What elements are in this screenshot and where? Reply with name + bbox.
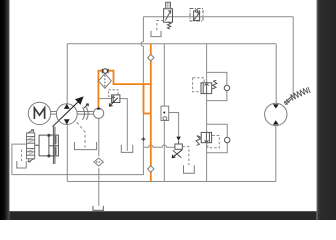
wire supply rail y=16.7 xyxy=(143,16,293,18)
hot oil relief valve (x=178.6) xyxy=(172,137,182,158)
wire charge line horizontal y=84.1 (orange) xyxy=(113,83,151,85)
electric motor M xyxy=(28,102,50,124)
wire return rail y=174.6 xyxy=(12,174,144,176)
wire branch y=112.5 to hot oil relief xyxy=(164,113,178,138)
flow arrow on x=143.4 xyxy=(142,138,146,141)
main tank xyxy=(93,206,103,211)
tank under charge relief xyxy=(121,145,133,153)
pump drain tank (wide) xyxy=(74,142,96,150)
hydraulic motor HM1 xyxy=(265,103,287,125)
charge pump P2 xyxy=(94,107,104,119)
wire pump top port xyxy=(66,44,68,104)
wire suction line charge pump to strainer xyxy=(98,119,100,157)
suction strainer xyxy=(94,158,103,166)
tank right center xyxy=(184,165,195,173)
wire charge pump outlet (orange) xyxy=(98,71,113,108)
wire pump bottom port xyxy=(66,124,68,181)
wire main loop rail y=43.8 xyxy=(67,43,276,45)
charge filter F1 xyxy=(99,74,112,89)
wire orange rung y=113.5 xyxy=(144,113,151,115)
orifice diamond lower xyxy=(148,166,154,172)
orifice diamond upper xyxy=(148,54,154,60)
lower check valve xyxy=(225,137,230,142)
left pilot valve (proportional) xyxy=(27,130,35,162)
upper cross relief valve xyxy=(193,78,217,94)
wire bottom loop rail y=181.5 xyxy=(67,181,275,183)
wire charge main vertical x=150.8 (orange) xyxy=(150,44,152,182)
pump case drain (dashed) xyxy=(77,122,85,147)
solenoid valve pilot drain (dashed) xyxy=(157,21,164,31)
wire shuttle line x=164.3 xyxy=(163,44,165,182)
shaft M to pump xyxy=(51,112,57,115)
wire motor bottom port xyxy=(275,125,277,182)
wire vertical x=143.4 with hop at rail xyxy=(141,17,143,175)
wire lower cross relief loop xyxy=(207,124,228,153)
wire left return leg xyxy=(12,144,27,175)
lower cross relief valve xyxy=(196,132,219,147)
wire orange ladder left leg x=143.5 xyxy=(143,84,145,113)
servo cylinder links xyxy=(35,135,49,156)
shaft pump to charge pump with coupling arcs xyxy=(77,104,93,120)
shuttle / orifice block on x=164.3 xyxy=(161,106,169,120)
solenoid valve V1 (top) xyxy=(164,2,173,29)
wire charge relief outlet to tank xyxy=(120,99,127,151)
wire strainer to tank xyxy=(98,168,100,206)
servo cylinder xyxy=(48,119,61,164)
wire center branch x=206.6 xyxy=(206,44,208,182)
flow control valve FC1 xyxy=(190,9,203,22)
variable displacement pump P1 xyxy=(53,96,84,126)
charge relief valve (center) xyxy=(109,90,120,107)
tank top center xyxy=(151,31,161,37)
tank left xyxy=(17,161,26,168)
parking brake spring xyxy=(284,87,310,105)
wire charge relief inlet y=98.6 xyxy=(98,98,111,100)
hot oil relief drain (dashed) xyxy=(182,147,189,165)
wire upper cross relief loop xyxy=(207,72,227,100)
wire brake pilot x=293.2 xyxy=(292,17,294,97)
filter bypass check valve xyxy=(102,69,108,74)
upper check valve xyxy=(224,85,229,90)
pilot valve drain (dashed) xyxy=(21,150,23,162)
wire motor top port xyxy=(275,44,277,104)
wire pilot horizontal y=147.2 with hops xyxy=(143,145,175,147)
